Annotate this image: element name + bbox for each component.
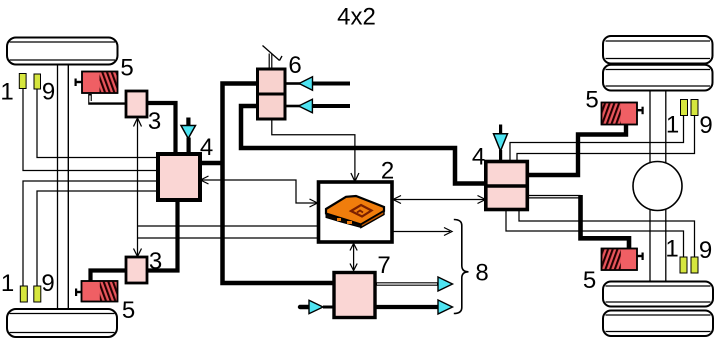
svg-text:5: 5 [585, 87, 598, 114]
svg-text:7: 7 [377, 252, 390, 279]
svg-text:1: 1 [0, 79, 13, 106]
svg-text:4: 4 [472, 144, 485, 171]
svg-text:9: 9 [699, 112, 712, 139]
svg-text:3: 3 [148, 108, 161, 135]
svg-text:1: 1 [665, 236, 678, 263]
svg-text:3: 3 [149, 248, 162, 275]
svg-text:8: 8 [475, 260, 488, 287]
svg-text:5: 5 [583, 267, 596, 294]
svg-text:4: 4 [200, 134, 213, 161]
svg-text:9: 9 [41, 270, 54, 297]
svg-text:9: 9 [42, 79, 55, 106]
svg-text:4x2: 4x2 [337, 4, 376, 31]
svg-text:6: 6 [288, 52, 301, 79]
svg-text:5: 5 [122, 297, 135, 324]
svg-text:1: 1 [1, 270, 14, 297]
svg-text:1: 1 [666, 112, 679, 139]
svg-text:9: 9 [699, 237, 712, 264]
svg-text:5: 5 [120, 55, 133, 82]
svg-text:2: 2 [381, 158, 394, 185]
